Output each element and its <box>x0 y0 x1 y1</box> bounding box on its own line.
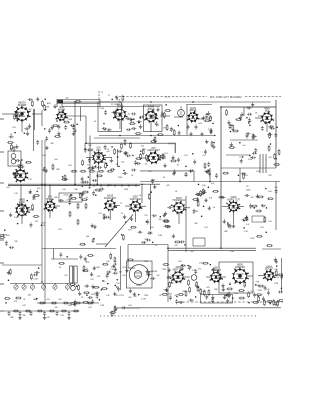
tube V5 <box>187 107 200 123</box>
node junction <box>61 101 63 103</box>
resistor R27 <box>82 159 84 166</box>
capacitor C17 <box>150 115 155 118</box>
ground <box>18 315 21 319</box>
node junction <box>232 297 234 299</box>
resistor R166 <box>273 299 275 306</box>
resistor R47 <box>79 192 81 199</box>
wire sound takeoff <box>140 170 194 172</box>
node junction <box>212 269 214 271</box>
svg-text:2.2M: 2.2M <box>202 190 207 192</box>
potentiometer VR4 <box>41 283 45 290</box>
capacitor C108 <box>56 311 59 316</box>
capacitor C92 <box>91 299 94 304</box>
wire <box>21 120 23 132</box>
resistor R90 <box>188 279 190 286</box>
capacitor C83 <box>141 241 146 244</box>
capacitor C121 <box>60 252 63 257</box>
wire board right edge <box>275 100 277 168</box>
svg-text:1ST IF: 1ST IF <box>117 107 124 109</box>
wire margin tick <box>0 283 4 285</box>
capacitor C144 <box>212 267 215 272</box>
resistor R43 <box>98 170 105 172</box>
resistor R49 <box>25 161 32 163</box>
resistor R134 <box>163 112 165 119</box>
resistor R22 <box>228 147 235 149</box>
node junction <box>41 184 43 186</box>
resistor R138 <box>154 136 156 143</box>
resistor R28 <box>114 148 116 155</box>
capacitor C132 <box>30 222 33 227</box>
wire <box>20 161 22 170</box>
resistor R34 <box>142 148 144 155</box>
capacitor C85 <box>5 241 8 246</box>
node junction <box>190 266 192 268</box>
balun L1 <box>58 100 64 103</box>
svg-text:RF CIRCUIT BOARD: RF CIRCUIT BOARD <box>210 95 241 99</box>
tube V14 <box>227 197 240 213</box>
wire <box>2 264 42 266</box>
resistor R20 <box>232 124 234 131</box>
wire <box>230 139 258 141</box>
resistor R118 <box>124 139 126 146</box>
capacitor C91 <box>94 292 99 295</box>
capacitor C97 <box>194 269 197 274</box>
ground <box>29 189 32 193</box>
svg-text:.001: .001 <box>164 153 168 155</box>
svg-text:VERT OSC: VERT OSC <box>130 199 142 201</box>
resistor R127 <box>9 268 11 275</box>
ground <box>90 272 93 276</box>
resistor R15 <box>269 132 271 139</box>
resistor R33 <box>146 154 148 161</box>
svg-text:220K: 220K <box>64 194 69 196</box>
node junction <box>119 101 121 103</box>
resistor R56 <box>85 203 87 210</box>
capacitor C37 <box>97 166 102 169</box>
node junction <box>116 286 118 288</box>
resistor R126 <box>30 273 32 280</box>
resistor R48 <box>70 197 77 199</box>
ground <box>202 116 205 120</box>
node junction <box>85 148 87 150</box>
wire <box>128 267 135 269</box>
capacitor C87 <box>79 254 82 259</box>
node junction <box>208 169 210 171</box>
wire shield bracket <box>168 143 176 145</box>
resistor R154 <box>263 299 265 306</box>
svg-text:2.2M: 2.2M <box>250 238 255 240</box>
capacitor C146 <box>106 273 109 278</box>
capacitor C102 <box>280 274 283 279</box>
ground <box>93 266 96 270</box>
svg-text:100: 100 <box>62 189 65 191</box>
capacitor C143 <box>181 264 186 267</box>
wire tick <box>114 184 116 187</box>
resistor R65 <box>148 193 150 200</box>
capacitor C127 <box>74 128 77 133</box>
resistor R119 <box>212 190 219 192</box>
resistor R24 <box>10 144 12 151</box>
capacitor C31 <box>229 124 232 129</box>
node junction <box>45 109 47 111</box>
svg-text:.005: .005 <box>244 175 248 177</box>
svg-text:2.2M: 2.2M <box>274 283 279 285</box>
svg-text:2.2M: 2.2M <box>257 290 262 292</box>
capacitor C119 <box>34 271 39 274</box>
wire shield bracket <box>174 144 176 154</box>
capacitor C39 <box>131 169 136 172</box>
resistor R137 <box>157 134 164 136</box>
capacitor C47 <box>193 159 196 164</box>
wire long bus <box>44 140 46 303</box>
capacitor C23 <box>248 118 251 123</box>
ground <box>50 125 53 129</box>
resistor R112 <box>114 305 116 312</box>
svg-text:220K: 220K <box>41 222 46 224</box>
ground <box>90 223 93 227</box>
wire <box>98 163 100 171</box>
wire <box>125 205 130 207</box>
node junction <box>99 299 101 301</box>
node junction <box>227 222 229 224</box>
capacitor C122 <box>246 107 251 110</box>
node junction <box>171 282 173 284</box>
svg-text:HORIZ OUT: HORIZ OUT <box>227 200 240 202</box>
capacitor C95 <box>150 277 155 280</box>
node junction <box>239 142 241 144</box>
resistor R148 <box>255 210 262 212</box>
wire tick <box>128 184 130 187</box>
node junction <box>104 216 106 218</box>
resistor R149 <box>161 293 168 295</box>
resistor R70 <box>0 234 5 236</box>
resistor R97 <box>258 285 265 287</box>
ground <box>222 287 225 291</box>
resistor R37 <box>159 155 166 157</box>
svg-text:.001: .001 <box>6 187 10 189</box>
resistor R41 <box>80 170 87 172</box>
wire <box>99 100 101 108</box>
svg-text:470: 470 <box>46 299 49 301</box>
node junction <box>125 221 127 223</box>
svg-text:.047: .047 <box>98 191 102 193</box>
resistor R32 <box>140 153 142 160</box>
ground <box>205 169 208 173</box>
ground <box>16 116 19 120</box>
tube V2 <box>56 107 68 122</box>
resistor R128 <box>58 262 65 264</box>
wire bus <box>140 181 280 183</box>
wire board outline dash <box>245 96 281 98</box>
node junction <box>123 170 125 172</box>
resistor R109 <box>61 310 68 312</box>
capacitor C135 <box>249 204 252 209</box>
tube V18 <box>232 264 249 284</box>
capacitor C32 <box>254 148 257 153</box>
wire <box>49 210 51 218</box>
node junction <box>85 142 87 144</box>
resistor R144 <box>12 174 19 176</box>
resistor R142 <box>278 149 280 156</box>
wire diagonal feedback <box>105 215 133 248</box>
resistor R11 <box>173 129 175 136</box>
node junction <box>104 129 106 131</box>
wire board left edge <box>220 107 222 248</box>
wire <box>142 157 149 159</box>
capacitor C134 <box>167 206 172 209</box>
capacitor C66 <box>20 206 25 209</box>
wire <box>221 276 226 278</box>
resistor R84 <box>162 264 169 266</box>
node junction <box>38 267 40 269</box>
capacitor C5 <box>72 125 75 130</box>
wire <box>21 104 23 108</box>
ground <box>81 192 84 196</box>
capacitor C49 <box>205 170 210 173</box>
node junction <box>208 186 210 188</box>
resistor R116 <box>105 162 107 169</box>
capacitor C63 <box>59 199 64 202</box>
wire <box>120 246 122 290</box>
node junction <box>230 124 232 126</box>
resistor R158 <box>15 297 22 299</box>
node junction <box>138 294 140 296</box>
resistor R124 <box>256 235 263 237</box>
tube V4 <box>144 106 158 124</box>
capacitor C14 <box>126 128 131 131</box>
ground <box>245 215 248 219</box>
tube V6 <box>260 107 274 124</box>
node junction <box>203 205 205 207</box>
ground <box>18 202 21 206</box>
ground <box>172 234 175 238</box>
ground <box>112 264 115 268</box>
svg-text:120: 120 <box>268 221 271 223</box>
ground <box>7 270 10 274</box>
ground <box>221 283 224 287</box>
wire <box>168 276 173 278</box>
node junction <box>56 120 58 122</box>
tube V8 <box>147 148 161 165</box>
node junction <box>86 294 88 296</box>
capacitor C112 <box>45 136 48 141</box>
resistor R135 <box>63 121 70 123</box>
transformer can T5 <box>191 275 197 281</box>
wire <box>96 243 108 245</box>
resistor R59 <box>197 200 199 207</box>
resistor R95 <box>244 281 246 288</box>
wire <box>53 249 55 260</box>
wire bus double B <box>8 185 140 187</box>
tube V10 <box>15 200 30 218</box>
wire <box>233 211 235 224</box>
resistor R67 <box>163 220 170 222</box>
node junction <box>76 123 78 125</box>
resistor R69 <box>0 237 5 239</box>
svg-text:DAMPER: DAMPER <box>235 266 245 269</box>
node junction <box>212 123 214 125</box>
capacitor C42 <box>173 169 176 174</box>
capacitor C44 <box>185 172 188 177</box>
wire shield bus <box>99 135 216 137</box>
capacitor C48 <box>208 171 211 176</box>
wire dashed bottom <box>178 301 283 303</box>
capacitor C3 <box>58 124 61 129</box>
resistor R94 <box>238 290 245 292</box>
ground <box>223 295 226 299</box>
resistor R80 <box>83 265 85 272</box>
node junction <box>248 302 250 304</box>
ground <box>67 315 70 319</box>
capacitor C2 <box>104 110 107 115</box>
module outline <box>59 193 82 202</box>
svg-text:470: 470 <box>248 121 251 123</box>
wire <box>37 302 99 304</box>
node junction <box>133 118 135 120</box>
wire margin tick <box>0 310 4 312</box>
wire <box>41 110 43 126</box>
svg-text:C7: C7 <box>108 95 110 97</box>
node junction <box>117 156 119 158</box>
node junction <box>255 284 257 286</box>
capacitor C128 <box>70 124 75 127</box>
node junction <box>165 104 167 106</box>
wire board outline dash <box>115 96 207 98</box>
node junction <box>8 280 10 282</box>
wire <box>186 105 188 135</box>
capacitor C74 <box>246 216 249 221</box>
ground <box>130 217 133 221</box>
wire margin tick <box>0 151 4 153</box>
wire AGC bus <box>62 106 160 108</box>
node junction <box>119 135 121 137</box>
capacitor C65 <box>22 209 25 214</box>
svg-text:470: 470 <box>156 275 159 277</box>
svg-text:.047: .047 <box>106 151 110 153</box>
ground <box>211 295 214 299</box>
svg-text:2.2M: 2.2M <box>100 305 105 307</box>
svg-text:2.2M: 2.2M <box>144 261 149 263</box>
capacitor C110 <box>121 306 126 309</box>
resistor R74 <box>110 253 112 260</box>
ground <box>209 128 212 132</box>
capacitor C9 <box>28 98 33 101</box>
capacitor C4 <box>64 125 67 130</box>
wire <box>96 172 98 185</box>
node junction <box>76 285 78 287</box>
ground <box>163 163 166 167</box>
resistor R12 <box>204 120 211 122</box>
node junction <box>198 287 200 289</box>
control strip outline <box>201 295 233 304</box>
capacitor C43 <box>177 157 180 162</box>
svg-text:L2: L2 <box>101 92 103 94</box>
resistor R23 <box>7 142 14 144</box>
svg-text:220K: 220K <box>124 189 129 191</box>
wire margin tick <box>0 210 4 212</box>
node junction <box>152 242 154 244</box>
capacitor C6 <box>187 124 190 129</box>
node junction <box>156 114 158 116</box>
node junction <box>254 207 256 209</box>
wire <box>34 109 36 130</box>
svg-text:.01: .01 <box>139 195 142 197</box>
node junction <box>138 122 140 124</box>
wire tick <box>107 184 109 187</box>
node junction <box>220 106 222 108</box>
svg-text:.005: .005 <box>274 269 278 271</box>
node junction <box>275 158 277 160</box>
svg-text:2.2M: 2.2M <box>141 298 146 300</box>
resistor R104 <box>87 302 94 304</box>
resistor R54 <box>69 211 71 218</box>
node junction <box>93 238 95 240</box>
node junction <box>167 247 169 249</box>
capacitor C36 <box>91 165 94 170</box>
node junction <box>246 117 248 119</box>
resistor R111 <box>109 312 116 314</box>
ground <box>208 206 211 210</box>
ground <box>227 120 230 124</box>
svg-text:.047: .047 <box>22 305 26 307</box>
ground <box>28 124 31 128</box>
node junction <box>249 124 251 126</box>
capacitor C98 <box>188 265 191 270</box>
wire <box>140 205 146 207</box>
node junction <box>150 135 152 137</box>
node junction <box>146 221 148 223</box>
wire <box>2 113 14 115</box>
resistor R9 <box>135 133 142 135</box>
node junction <box>210 264 212 266</box>
capacitor C13 <box>131 127 136 130</box>
ground <box>78 291 81 295</box>
node junction <box>74 101 76 103</box>
resistor R89 <box>200 288 202 295</box>
resistor R152 <box>238 297 245 299</box>
ground <box>45 146 48 150</box>
node junction <box>153 139 155 141</box>
resistor R14 <box>252 133 254 140</box>
node junction <box>4 229 6 231</box>
wire tick <box>93 184 95 187</box>
node junction <box>190 171 192 173</box>
resistor R73 <box>69 283 76 285</box>
node junction <box>176 296 178 298</box>
ground <box>189 132 192 136</box>
resistor R136 <box>150 141 157 143</box>
wire bottom rail <box>125 307 281 309</box>
resistor R156 <box>74 300 76 307</box>
resistor R160 <box>102 263 109 265</box>
capacitor C103 <box>278 291 283 294</box>
capacitor C129 <box>24 127 29 130</box>
capacitor C150 <box>175 299 178 304</box>
capacitor C99 <box>205 294 208 299</box>
ground <box>32 195 35 199</box>
wire long bus <box>41 140 43 282</box>
ground <box>53 104 56 108</box>
capacitor C147 <box>211 298 214 303</box>
capacitor C57 <box>81 176 84 181</box>
capacitor C58 <box>92 179 97 182</box>
svg-text:.01: .01 <box>131 175 134 177</box>
ground <box>167 268 170 272</box>
svg-text:OSC: OSC <box>96 150 101 152</box>
ground <box>172 171 175 175</box>
wire shield bar <box>259 154 261 173</box>
node junction <box>16 114 18 116</box>
